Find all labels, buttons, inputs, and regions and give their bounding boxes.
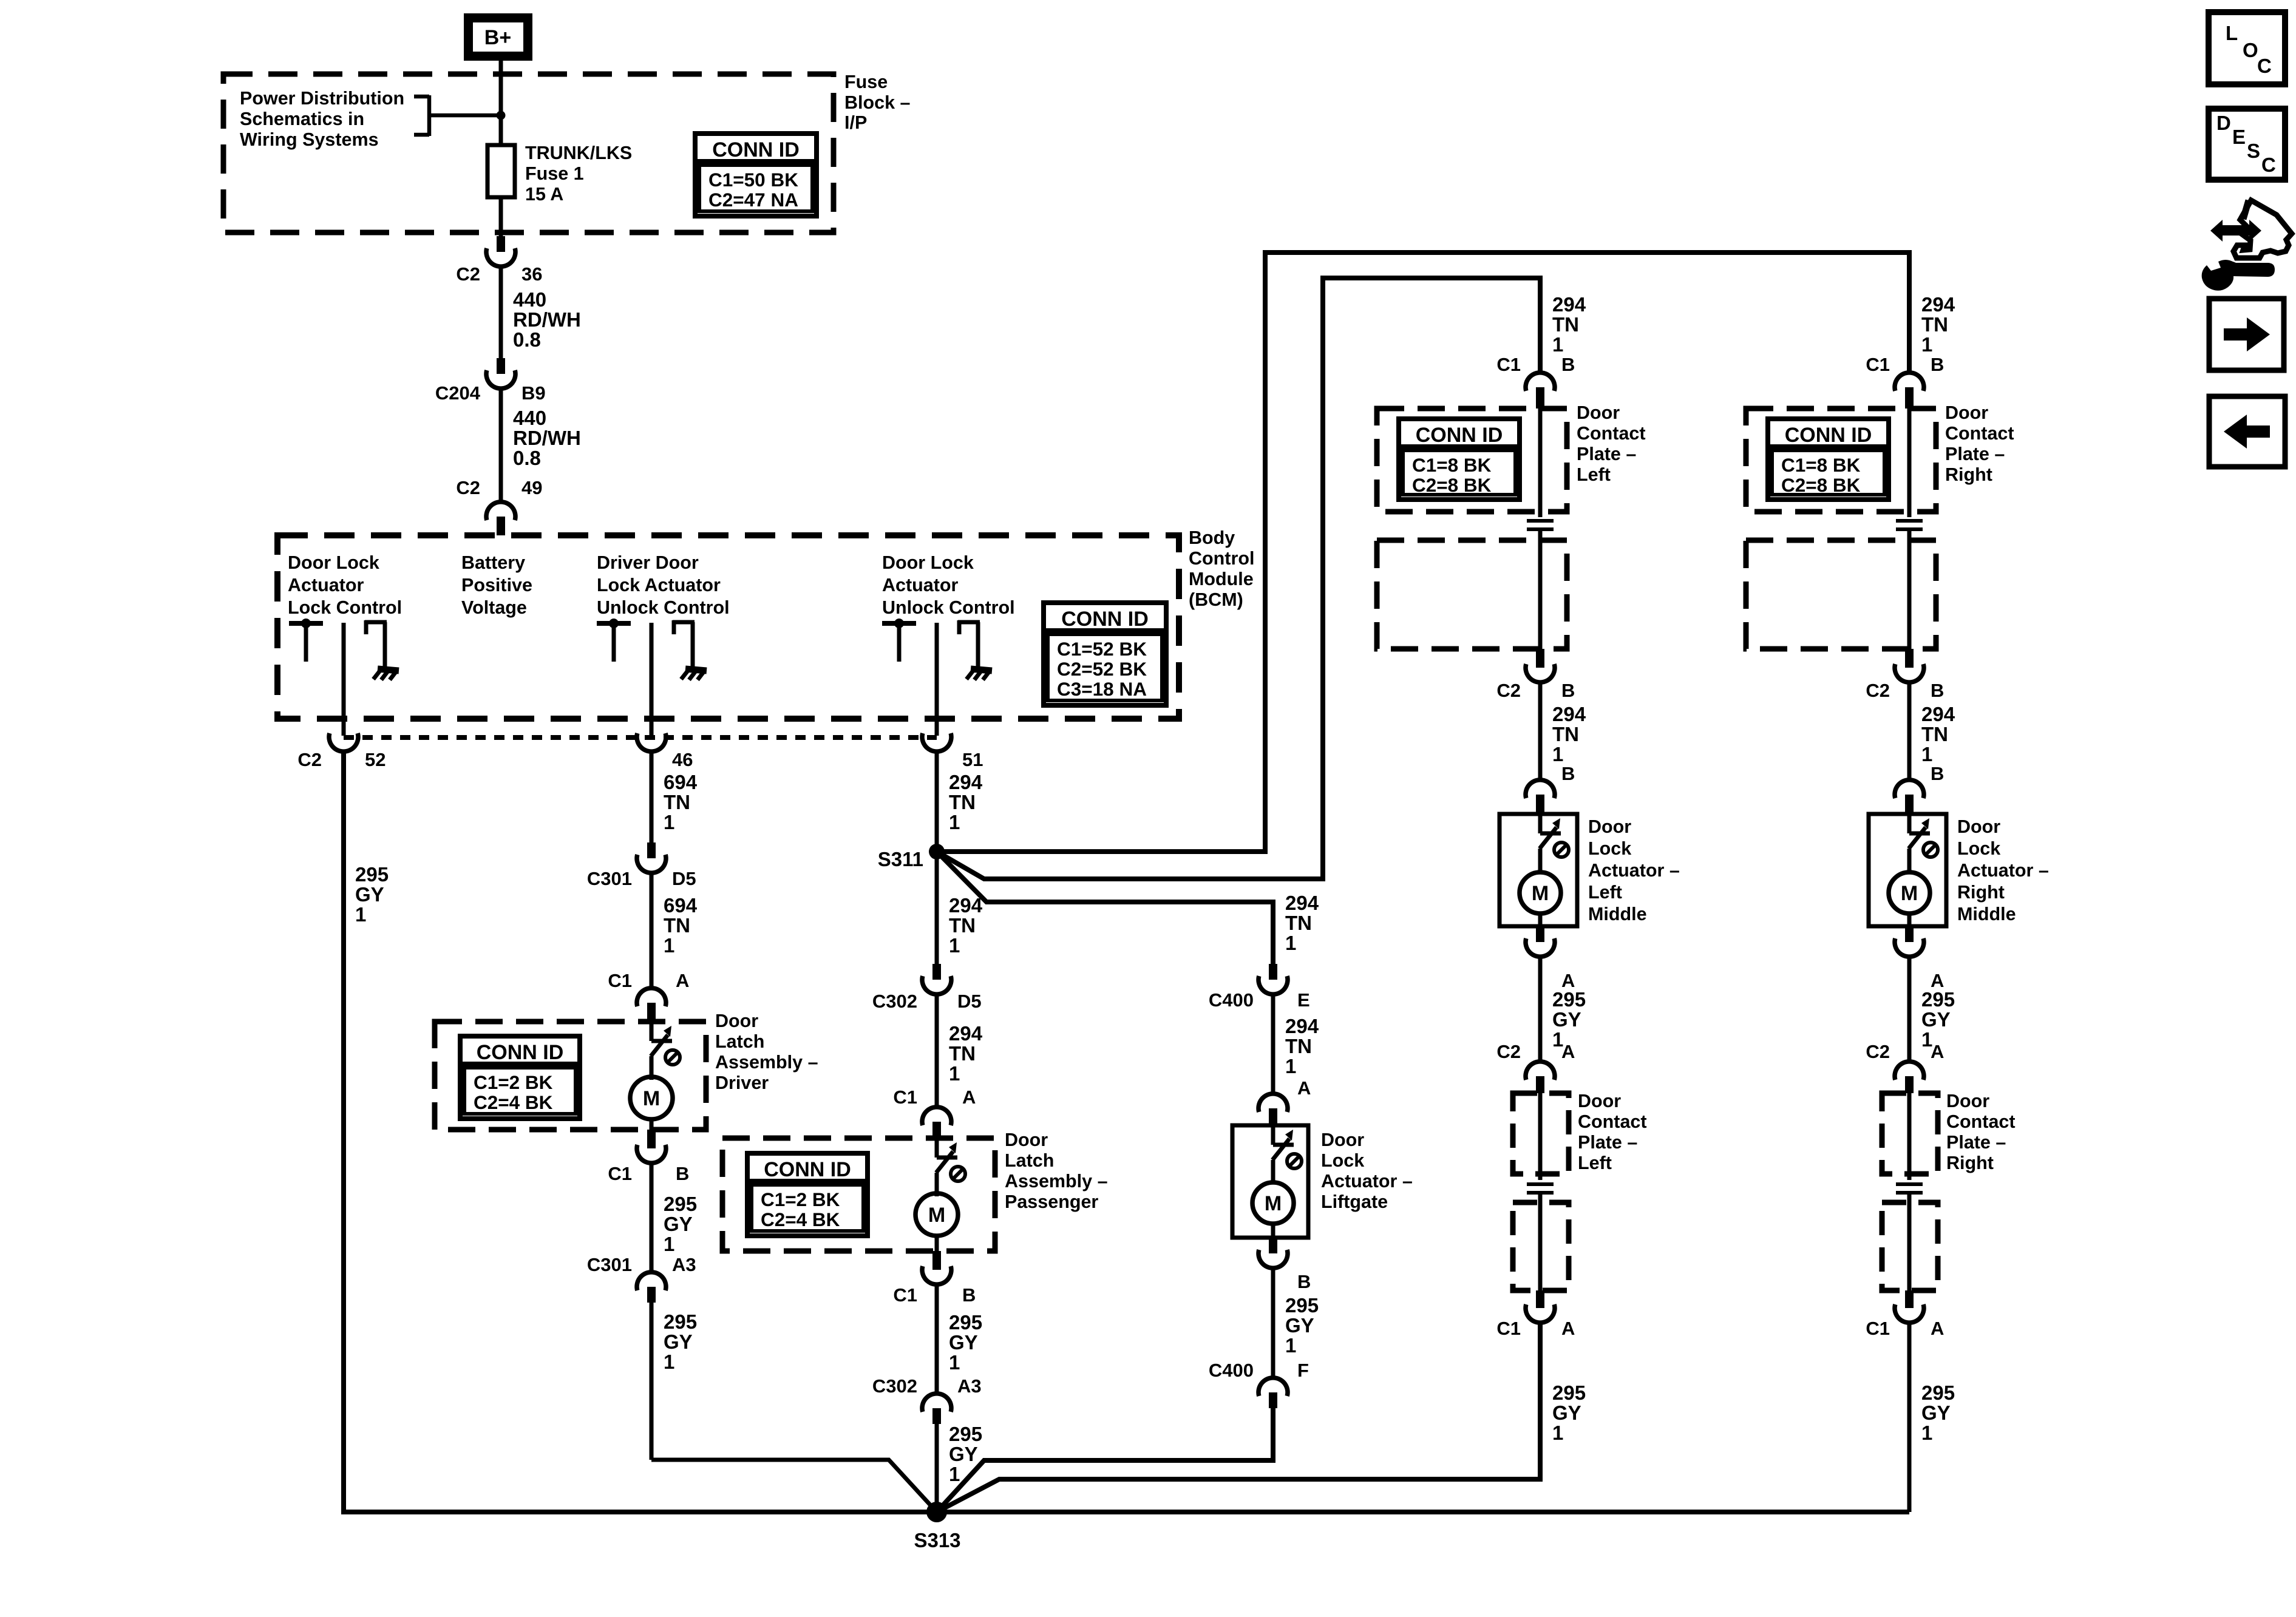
svg-text:TN: TN xyxy=(1285,912,1312,934)
svg-text:C2: C2 xyxy=(456,263,480,285)
svg-text:295: 295 xyxy=(1921,1381,1955,1404)
svg-text:C2: C2 xyxy=(456,477,480,498)
svg-text:C301: C301 xyxy=(587,868,632,889)
svg-text:C2: C2 xyxy=(1496,1041,1521,1062)
svg-text:295: 295 xyxy=(355,863,389,886)
svg-text:440: 440 xyxy=(513,407,546,429)
svg-text:Driver Door: Driver Door xyxy=(597,552,699,573)
svg-text:Battery: Battery xyxy=(461,552,525,573)
svg-text:C1: C1 xyxy=(1496,1318,1521,1339)
svg-text:295: 295 xyxy=(1921,988,1955,1011)
svg-text:CONN ID: CONN ID xyxy=(1416,424,1503,447)
svg-text:Schematics in: Schematics in xyxy=(240,109,364,129)
svg-text:S: S xyxy=(2247,140,2260,162)
svg-text:D: D xyxy=(2216,112,2231,134)
svg-text:GY: GY xyxy=(664,1213,693,1235)
svg-text:C1: C1 xyxy=(1496,354,1521,375)
svg-text:Liftgate: Liftgate xyxy=(1321,1192,1388,1212)
svg-text:CONN ID: CONN ID xyxy=(712,138,800,161)
svg-text:A: A xyxy=(1561,1041,1575,1062)
svg-text:Plate –: Plate – xyxy=(1577,444,1636,464)
svg-text:RD/WH: RD/WH xyxy=(513,308,581,331)
svg-text:S311: S311 xyxy=(878,848,923,870)
svg-text:Left: Left xyxy=(1588,882,1622,903)
svg-text:694: 694 xyxy=(664,771,698,793)
svg-text:Actuator: Actuator xyxy=(882,575,959,595)
svg-text:Door: Door xyxy=(1957,816,2000,837)
svg-text:0.8: 0.8 xyxy=(513,328,541,351)
svg-text:294: 294 xyxy=(1285,1015,1319,1037)
svg-text:Fuse: Fuse xyxy=(844,72,888,92)
svg-text:GY: GY xyxy=(1921,1402,1951,1424)
svg-text:C1: C1 xyxy=(1866,1318,1890,1339)
svg-text:Door: Door xyxy=(1588,816,1631,837)
svg-text:Wiring Systems: Wiring Systems xyxy=(240,129,379,150)
svg-text:C1=50 BK: C1=50 BK xyxy=(708,169,798,191)
svg-text:C2: C2 xyxy=(1866,1041,1890,1062)
svg-text:294: 294 xyxy=(1285,892,1319,914)
svg-text:CONN ID: CONN ID xyxy=(1061,608,1149,631)
svg-text:A: A xyxy=(676,970,689,991)
svg-text:I/P: I/P xyxy=(844,112,867,133)
svg-text:C1: C1 xyxy=(1866,354,1890,375)
svg-text:C301: C301 xyxy=(587,1254,632,1275)
svg-text:E: E xyxy=(2232,126,2246,148)
svg-text:C: C xyxy=(2257,55,2272,77)
svg-text:1: 1 xyxy=(664,934,674,957)
svg-text:Assembly –: Assembly – xyxy=(1005,1171,1108,1192)
svg-text:Contact: Contact xyxy=(1946,1111,2016,1132)
svg-text:A: A xyxy=(1561,1318,1575,1339)
svg-text:C2=8 BK: C2=8 BK xyxy=(1412,474,1492,496)
svg-text:TN: TN xyxy=(949,1042,976,1065)
svg-text:Door: Door xyxy=(1945,402,1988,423)
svg-text:GY: GY xyxy=(1552,1402,1581,1424)
svg-text:M: M xyxy=(1265,1192,1282,1215)
svg-text:Door: Door xyxy=(1321,1130,1364,1150)
svg-text:Contact: Contact xyxy=(1577,423,1646,444)
svg-text:D5: D5 xyxy=(672,868,696,889)
svg-text:1: 1 xyxy=(664,1351,674,1373)
svg-text:C302: C302 xyxy=(872,1375,917,1397)
svg-text:C1: C1 xyxy=(608,1163,632,1184)
svg-text:1: 1 xyxy=(355,903,366,926)
svg-text:CONN ID: CONN ID xyxy=(764,1158,851,1181)
svg-text:Lock: Lock xyxy=(1588,838,1631,859)
svg-text:Door Lock: Door Lock xyxy=(288,552,379,573)
svg-text:295: 295 xyxy=(949,1423,982,1445)
svg-text:A: A xyxy=(1931,1041,1944,1062)
svg-text:294: 294 xyxy=(949,1022,983,1045)
svg-text:TN: TN xyxy=(949,791,976,813)
svg-text:C1=8 BK: C1=8 BK xyxy=(1781,454,1861,476)
svg-text:294: 294 xyxy=(949,894,983,917)
svg-text:RD/WH: RD/WH xyxy=(513,427,581,449)
svg-text:Door: Door xyxy=(1578,1091,1621,1111)
svg-text:B9: B9 xyxy=(521,382,546,404)
svg-text:1: 1 xyxy=(949,934,960,957)
svg-text:GY: GY xyxy=(664,1331,693,1353)
svg-text:Unlock Control: Unlock Control xyxy=(882,597,1015,618)
svg-text:F: F xyxy=(1297,1360,1309,1381)
svg-text:Contact: Contact xyxy=(1578,1111,1647,1132)
svg-text:Lock Actuator: Lock Actuator xyxy=(597,575,721,595)
svg-text:Body: Body xyxy=(1189,527,1235,548)
svg-text:Right: Right xyxy=(1946,1153,1994,1173)
svg-text:Actuator: Actuator xyxy=(288,575,364,595)
svg-text:M: M xyxy=(928,1204,945,1227)
svg-text:Positive: Positive xyxy=(461,575,532,595)
svg-text:B+: B+ xyxy=(484,26,511,49)
svg-text:M: M xyxy=(1532,882,1549,905)
svg-text:S313: S313 xyxy=(914,1529,960,1551)
svg-text:294: 294 xyxy=(1552,703,1586,725)
svg-text:1: 1 xyxy=(1285,1334,1296,1357)
svg-text:C2=52 BK: C2=52 BK xyxy=(1057,658,1147,680)
svg-text:C2=4 BK: C2=4 BK xyxy=(474,1091,553,1113)
svg-text:295: 295 xyxy=(1285,1294,1319,1317)
svg-text:A3: A3 xyxy=(957,1375,982,1397)
svg-text:Block –: Block – xyxy=(844,92,911,113)
svg-text:B: B xyxy=(1931,763,1944,784)
svg-text:1: 1 xyxy=(1921,1422,1932,1444)
svg-text:Left: Left xyxy=(1577,464,1611,485)
svg-text:C204: C204 xyxy=(435,382,481,404)
svg-text:B: B xyxy=(1561,763,1575,784)
svg-text:Power Distribution: Power Distribution xyxy=(240,88,404,109)
svg-text:15 A: 15 A xyxy=(525,184,563,205)
svg-text:Plate –: Plate – xyxy=(1945,444,2005,464)
svg-text:A: A xyxy=(1297,1077,1311,1099)
svg-text:440: 440 xyxy=(513,288,546,311)
svg-text:Actuator –: Actuator – xyxy=(1957,860,2049,881)
svg-text:C2: C2 xyxy=(1496,680,1521,701)
svg-text:295: 295 xyxy=(664,1193,697,1215)
svg-text:1: 1 xyxy=(664,1233,674,1255)
svg-text:295: 295 xyxy=(1552,988,1586,1011)
svg-text:A: A xyxy=(1931,1318,1944,1339)
svg-text:1: 1 xyxy=(1921,333,1932,356)
svg-text:C2=47 NA: C2=47 NA xyxy=(708,189,798,211)
svg-text:Middle: Middle xyxy=(1957,904,2016,924)
svg-text:C1=2 BK: C1=2 BK xyxy=(474,1071,553,1093)
svg-text:52: 52 xyxy=(365,749,385,770)
svg-text:C2=4 BK: C2=4 BK xyxy=(761,1209,840,1230)
svg-text:TN: TN xyxy=(949,914,976,937)
svg-text:Fuse 1: Fuse 1 xyxy=(525,163,584,184)
svg-text:Lock Control: Lock Control xyxy=(288,597,402,618)
svg-text:D5: D5 xyxy=(957,991,982,1012)
svg-text:C1=8 BK: C1=8 BK xyxy=(1412,454,1492,476)
svg-text:GY: GY xyxy=(1552,1008,1581,1031)
svg-text:Door Lock: Door Lock xyxy=(882,552,974,573)
svg-text:E: E xyxy=(1297,989,1310,1011)
svg-text:Door: Door xyxy=(1005,1130,1048,1150)
svg-text:A: A xyxy=(962,1086,976,1108)
svg-text:GY: GY xyxy=(1921,1008,1951,1031)
svg-text:49: 49 xyxy=(521,477,542,498)
svg-text:294: 294 xyxy=(1552,293,1586,316)
svg-text:1: 1 xyxy=(949,1062,960,1085)
svg-text:C1: C1 xyxy=(893,1086,917,1108)
svg-text:1: 1 xyxy=(1552,333,1563,356)
svg-text:C2: C2 xyxy=(297,749,322,770)
svg-text:295: 295 xyxy=(949,1311,982,1334)
svg-text:TN: TN xyxy=(1552,723,1579,745)
svg-text:294: 294 xyxy=(1921,703,1955,725)
svg-text:Driver: Driver xyxy=(715,1073,769,1093)
svg-text:694: 694 xyxy=(664,894,698,917)
svg-text:CONN ID: CONN ID xyxy=(477,1041,564,1064)
svg-text:Unlock Control: Unlock Control xyxy=(597,597,730,618)
svg-text:1: 1 xyxy=(1285,932,1296,954)
svg-text:B: B xyxy=(1931,680,1944,701)
svg-text:M: M xyxy=(1901,882,1918,905)
svg-text:294: 294 xyxy=(949,771,983,793)
svg-text:GY: GY xyxy=(1285,1314,1314,1337)
svg-text:TN: TN xyxy=(664,914,690,937)
svg-text:295: 295 xyxy=(1552,1381,1586,1404)
svg-text:C3=18 NA: C3=18 NA xyxy=(1057,678,1147,700)
svg-text:B: B xyxy=(1561,680,1575,701)
svg-text:CONN ID: CONN ID xyxy=(1785,424,1872,447)
svg-text:TRUNK/LKS: TRUNK/LKS xyxy=(525,143,632,163)
svg-text:Latch: Latch xyxy=(715,1031,764,1052)
svg-text:C1: C1 xyxy=(893,1284,917,1306)
svg-text:B: B xyxy=(1297,1271,1311,1292)
svg-text:C1=2 BK: C1=2 BK xyxy=(761,1188,840,1210)
svg-text:1: 1 xyxy=(1552,1422,1563,1444)
svg-text:Left: Left xyxy=(1578,1153,1612,1173)
svg-text:Door: Door xyxy=(715,1011,758,1031)
svg-text:1: 1 xyxy=(949,1463,960,1485)
svg-text:294: 294 xyxy=(1921,293,1955,316)
svg-text:Actuator –: Actuator – xyxy=(1321,1171,1413,1192)
svg-text:1: 1 xyxy=(1921,743,1932,765)
svg-text:Door: Door xyxy=(1577,402,1620,423)
svg-text:Latch: Latch xyxy=(1005,1150,1054,1171)
svg-text:46: 46 xyxy=(672,749,693,770)
svg-text:C400: C400 xyxy=(1209,989,1254,1011)
svg-text:Control: Control xyxy=(1189,548,1254,569)
svg-text:B: B xyxy=(962,1284,976,1306)
svg-text:TN: TN xyxy=(1285,1035,1312,1057)
svg-text:B: B xyxy=(1561,354,1575,375)
svg-text:C1: C1 xyxy=(608,970,632,991)
svg-text:B: B xyxy=(1931,354,1944,375)
svg-text:Right: Right xyxy=(1945,464,1992,485)
svg-text:GY: GY xyxy=(355,883,384,906)
svg-text:Contact: Contact xyxy=(1945,423,2014,444)
svg-text:Actuator –: Actuator – xyxy=(1588,860,1680,881)
svg-text:TN: TN xyxy=(1921,313,1948,336)
svg-text:Lock: Lock xyxy=(1957,838,2000,859)
svg-text:(BCM): (BCM) xyxy=(1189,589,1243,610)
svg-text:C302: C302 xyxy=(872,991,917,1012)
svg-text:295: 295 xyxy=(664,1310,697,1333)
svg-text:51: 51 xyxy=(962,749,983,770)
svg-text:1: 1 xyxy=(1552,743,1563,765)
svg-text:Plate –: Plate – xyxy=(1946,1132,2006,1153)
svg-text:Middle: Middle xyxy=(1588,904,1647,924)
svg-text:Lock: Lock xyxy=(1321,1150,1364,1171)
svg-text:C400: C400 xyxy=(1209,1360,1254,1381)
svg-text:C1=52 BK: C1=52 BK xyxy=(1057,638,1147,660)
svg-text:C2=8 BK: C2=8 BK xyxy=(1781,474,1861,496)
svg-text:Passenger: Passenger xyxy=(1005,1192,1098,1212)
svg-text:GY: GY xyxy=(949,1331,978,1354)
svg-text:C2: C2 xyxy=(1866,680,1890,701)
svg-text:TN: TN xyxy=(1552,313,1579,336)
svg-text:Right: Right xyxy=(1957,882,2005,903)
svg-text:L: L xyxy=(2226,22,2238,44)
svg-text:B: B xyxy=(676,1163,689,1184)
svg-text:A3: A3 xyxy=(672,1254,696,1275)
svg-text:1: 1 xyxy=(664,811,674,833)
svg-text:C: C xyxy=(2261,154,2276,176)
svg-text:1: 1 xyxy=(949,811,960,833)
svg-text:Assembly –: Assembly – xyxy=(715,1052,818,1073)
svg-text:Voltage: Voltage xyxy=(461,597,527,618)
svg-text:1: 1 xyxy=(1285,1055,1296,1077)
svg-text:0.8: 0.8 xyxy=(513,447,541,469)
svg-text:Door: Door xyxy=(1946,1091,1989,1111)
svg-text:M: M xyxy=(643,1087,660,1110)
svg-text:GY: GY xyxy=(949,1443,978,1465)
svg-text:O: O xyxy=(2243,39,2258,61)
svg-text:36: 36 xyxy=(521,263,542,285)
svg-text:TN: TN xyxy=(664,791,690,813)
svg-text:1: 1 xyxy=(949,1351,960,1374)
svg-text:TN: TN xyxy=(1921,723,1948,745)
svg-text:Plate –: Plate – xyxy=(1578,1132,1637,1153)
svg-text:Module: Module xyxy=(1189,569,1254,589)
